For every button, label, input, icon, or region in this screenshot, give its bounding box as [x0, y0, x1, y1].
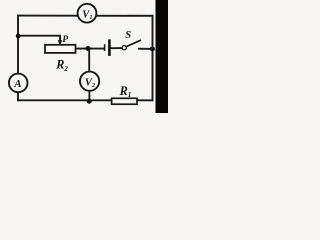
- wire: voltmeter V2 stem upper: [88, 49, 90, 73]
- background: [0, 0, 168, 113]
- node: bottom junction: [87, 99, 92, 104]
- node: left junction: [16, 34, 21, 39]
- slider arrow onto rheostat: [58, 40, 63, 45]
- wire: top side: [18, 15, 153, 17]
- wire: slider feed from left wire to slider stem: [18, 36, 60, 41]
- svg-text:A: A: [13, 78, 21, 90]
- wire: bottom side: [18, 99, 153, 101]
- wire: battery to switch pivot: [111, 47, 123, 49]
- switch S pivot: [122, 46, 126, 50]
- wire: right side: [152, 16, 154, 101]
- node: right junction: [150, 46, 155, 51]
- svg-text:S: S: [125, 30, 131, 41]
- rheostat R2 body: [45, 45, 76, 53]
- battery cell: long plate: [108, 39, 111, 56]
- battery cell: short plate: [104, 44, 106, 51]
- svg-text:P: P: [62, 34, 68, 45]
- node: rheostat-battery junction: [86, 46, 91, 51]
- wire: left side: [17, 16, 19, 101]
- wire: voltmeter V2 stem lower: [88, 91, 90, 101]
- switch S blade: [126, 40, 140, 46]
- ammeter A: [9, 74, 28, 93]
- black margin bar (right edge of scan): [156, 0, 169, 113]
- voltmeter V1: [78, 4, 97, 23]
- wire: rheostat right terminal to battery: [76, 48, 104, 50]
- wire: switch to right side: [139, 48, 153, 50]
- voltmeter V2: [80, 72, 99, 91]
- resistor R1 box: [112, 98, 137, 104]
